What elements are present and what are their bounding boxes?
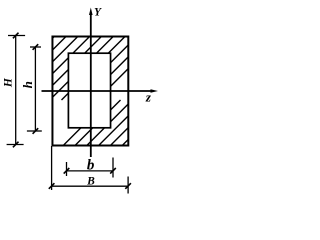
H bottom tick: [13, 142, 19, 148]
H bottom crossbar: [7, 144, 24, 146]
outer box of section: [52, 37, 128, 146]
B left extension line: [51, 146, 53, 190]
H top tick: [13, 33, 19, 39]
svg-text:z: z: [145, 90, 152, 105]
svg-text:H: H: [2, 77, 14, 88]
svg-text:b: b: [87, 157, 95, 173]
h bottom tick: [33, 128, 39, 134]
svg-text:B: B: [86, 175, 95, 187]
svg-text:h: h: [20, 81, 35, 88]
Y axis: [90, 13, 92, 157]
dimension h line: [27, 47, 42, 131]
b right tick: [110, 168, 116, 174]
z axis arrowhead: [151, 89, 159, 93]
b right end bar: [112, 158, 114, 178]
dimension B line: [52, 146, 129, 194]
h bottom crossbar: [27, 130, 42, 132]
svg-text:Y: Y: [94, 7, 102, 19]
B right end bar: [127, 177, 129, 194]
z axis: [42, 90, 153, 92]
dimension b line: [67, 158, 114, 178]
H top crossbar: [8, 35, 25, 37]
B left tick: [49, 183, 55, 189]
Y axis arrowhead: [89, 8, 93, 16]
B right tick: [125, 183, 131, 189]
inner hollow of section: [68, 53, 110, 128]
h top crossbar: [30, 46, 41, 48]
b left tick: [64, 168, 70, 174]
hatching of box-section walls: [0, 0, 197, 200]
dimension H line: [7, 36, 26, 145]
h top tick: [33, 44, 39, 50]
b left end bar: [66, 162, 68, 176]
